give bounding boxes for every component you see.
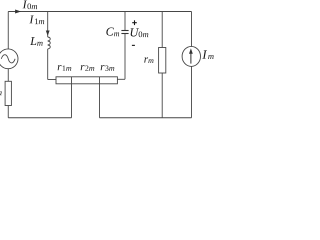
- wire bottom rail right segment: [100, 117, 192, 119]
- label rm: [144, 57, 153, 63]
- wire current source lower: [191, 66, 193, 118]
- resistor left box: [5, 81, 11, 105]
- arrow I1m on branch: [46, 31, 50, 36]
- current source arrow shaft: [190, 53, 192, 64]
- label U0m: [131, 28, 149, 37]
- label Cm: [106, 28, 119, 37]
- resistor chain divider 1: [71, 77, 73, 84]
- wire into chain right: [117, 78, 125, 80]
- source V1 sine wave: [1, 55, 15, 63]
- resistor chain divider 2: [99, 77, 101, 84]
- resistor chain box: [56, 77, 117, 84]
- wire left rail: [7, 12, 9, 49]
- label cut glyph at left edge: [0, 91, 2, 95]
- current source arrow head: [189, 48, 193, 53]
- wire below left resistor: [7, 106, 9, 118]
- label r1m: [58, 65, 72, 71]
- label r2m: [81, 65, 95, 71]
- wire tap node 2: [99, 84, 101, 118]
- capacitor Cm bottom plate: [121, 33, 128, 35]
- inductor Lm coil: [48, 37, 51, 49]
- wire capacitor branch upper: [124, 12, 126, 31]
- wire top rail: [8, 11, 191, 13]
- label Im: [202, 50, 213, 59]
- label r3m: [101, 65, 115, 71]
- label I1m: [29, 15, 44, 24]
- current source Im circle: [182, 46, 200, 66]
- resistor rm box: [159, 48, 166, 74]
- label I0m: [23, 0, 38, 9]
- wire capacitor branch lower: [124, 34, 126, 80]
- capacitor Cm top plate: [121, 30, 128, 32]
- wire inductor branch lower: [47, 49, 49, 80]
- wire rm branch lower: [161, 73, 163, 118]
- wire current source upper: [191, 12, 193, 47]
- wire tap node 1: [71, 84, 73, 118]
- wire below source: [7, 69, 9, 82]
- wire inductor branch upper: [47, 12, 49, 38]
- source V1 AC circle: [0, 49, 18, 69]
- label plus: [132, 20, 137, 25]
- label minus: [132, 45, 135, 46]
- arrow I0m on top rail: [15, 10, 21, 14]
- wire bottom rail left segment: [8, 117, 71, 119]
- wire rm branch upper: [161, 12, 163, 48]
- wire into chain left: [48, 79, 56, 81]
- label Lm: [30, 37, 43, 46]
